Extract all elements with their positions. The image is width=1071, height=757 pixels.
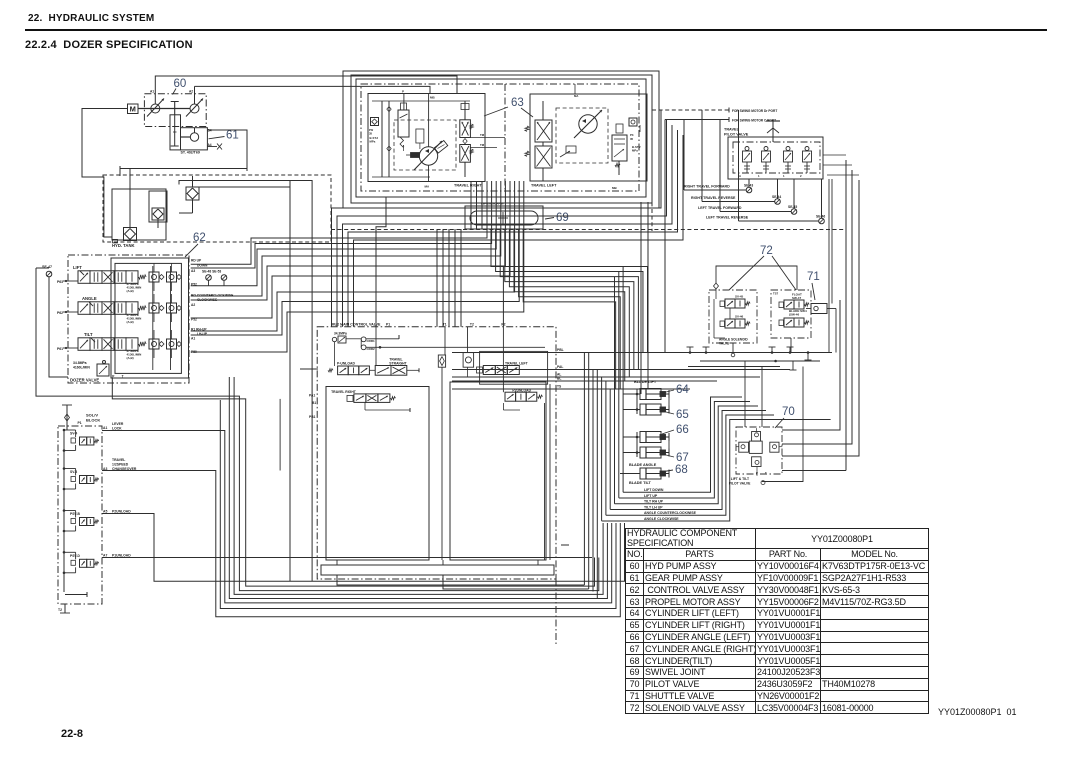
svg-text:MB: MB: [430, 96, 435, 100]
travel right orifice: [416, 129, 424, 143]
wire left travel reverse: [738, 110, 740, 221]
wire right travel forward: [683, 120, 685, 191]
svg-text:T: T: [122, 375, 124, 379]
svg-text:LIFT: LIFT: [73, 265, 82, 270]
tank bottom port: [113, 239, 118, 243]
sol/v bottom spare port: [65, 594, 87, 596]
pump coupling: [174, 102, 176, 116]
travel pilot pedal: [772, 121, 774, 142]
wire tilt rh up: [615, 406, 759, 504]
wire under propel 2: [337, 120, 667, 327]
travel pilot unit 1: [745, 147, 749, 151]
svg-text:34.8MPa: 34.8MPa: [73, 361, 87, 365]
svg-text:HYD. TANK: HYD. TANK: [112, 243, 135, 248]
cylinder tilt 68: [640, 468, 661, 479]
wire SE-47 top tie: [36, 267, 49, 269]
cylinder lift rod tie: [668, 394, 670, 410]
svg-text:ANGLE COUNTERCLOCKWISE: ANGLE COUNTERCLOCKWISE: [644, 511, 697, 515]
for swing motor D port line: [652, 109, 729, 111]
svg-text:PAL: PAL: [557, 365, 563, 369]
dozer valve inner box: [111, 258, 189, 378]
wire tank to cv supply 2: [179, 181, 312, 582]
travel right P line: [403, 94, 405, 111]
travel right tilt actuator: [434, 140, 447, 153]
subsection title: [25, 39, 193, 51]
svg-text:TM: TM: [480, 143, 485, 147]
propel motor assy outer frame 1: [343, 71, 659, 208]
shuttle valve 71: [811, 304, 827, 314]
cylinder feed tilt: [620, 473, 640, 475]
wire under propel 3: [343, 125, 673, 327]
pilot valve port right: [770, 442, 779, 452]
svg-text:P1UNLOAD: P1UNLOAD: [112, 554, 131, 558]
travel right TM stubs: [470, 137, 505, 139]
svg-text:TM: TM: [480, 133, 485, 137]
fitting down 2: [807, 353, 809, 361]
gear pump circle: [190, 133, 198, 141]
svg-text:LEVER: LEVER: [112, 422, 124, 426]
wire dozer-swivel 1: [191, 181, 487, 264]
svg-text:63: 63: [511, 97, 524, 109]
svg-text:BLADE LIFT: BLADE LIFT: [634, 380, 657, 384]
wire pump suction to tank: [155, 76, 457, 104]
travel right speed actuator: [411, 153, 420, 158]
cv port PAL line: [452, 369, 790, 371]
wire dozer drain b: [229, 377, 607, 599]
fitting risers: [744, 361, 746, 427]
svg-text:TRAVEL RIGHT: TRAVEL RIGHT: [331, 390, 357, 394]
dozer section TILT feeds: [153, 330, 155, 339]
swivel joint outer box: [465, 206, 543, 229]
dozer valve inner box 2: [115, 263, 181, 373]
svg-text:TRAVEL: TRAVEL: [724, 128, 740, 132]
svg-text:P2UNLOAD: P2UNLOAD: [112, 510, 131, 514]
svg-text:SV-3: SV-3: [70, 470, 77, 474]
pilot valve center block: [749, 441, 762, 453]
svg-text:68: 68: [675, 464, 688, 476]
svg-text:A2: A2: [189, 90, 193, 94]
wire pilot valve to right margin: [782, 470, 846, 472]
sensor SE-48: [206, 275, 212, 281]
angle solenoid valve dash-dot box: [709, 290, 757, 343]
svg-text:SV-45: SV-45: [735, 295, 744, 299]
svg-text:PB1: PB1: [309, 415, 316, 419]
svg-text:A1: A1: [191, 337, 195, 341]
travel left port square: [629, 118, 637, 126]
wire swivel-cv 2: [442, 229, 444, 327]
wire propel to blade lift: [640, 202, 642, 394]
svg-text:SE-44: SE-44: [772, 195, 781, 199]
wire swing C down: [664, 120, 666, 353]
svg-text:35: 35: [369, 132, 373, 136]
cv bottom tank bracket: [321, 565, 554, 575]
sol/v T2 drain: [64, 604, 66, 613]
svg-text:DOZER VALVE: DOZER VALVE: [70, 378, 99, 383]
travel left counterbalance valve: [535, 120, 552, 142]
svg-text:P: P: [756, 471, 758, 475]
travel pilot unit 2: [764, 147, 768, 151]
svg-text:T1: T1: [443, 323, 447, 327]
svg-text:66: 66: [676, 424, 689, 436]
wire weave 8: [523, 229, 615, 389]
wire trunk 10: [622, 267, 624, 493]
propel center divider: [504, 84, 506, 191]
wire dozer drain a: [220, 400, 616, 609]
wire dozer drain c: [234, 377, 603, 594]
svg-text:SV-46: SV-46: [735, 315, 744, 319]
svg-text:TS7: TS7: [773, 292, 779, 296]
wire cv bottom drops: [337, 575, 584, 585]
travel right motor dashed box: [394, 120, 456, 170]
wire trunk 2: [588, 353, 590, 590]
svg-text:RIGHT TRAVEL REVERSE: RIGHT TRAVEL REVERSE: [691, 196, 736, 200]
travel right motor circle: [419, 147, 437, 165]
svg-text:TRAVEL: TRAVEL: [112, 458, 125, 462]
wire A1 lever lock: [102, 431, 612, 603]
travel left motor circle: [579, 115, 597, 133]
svg-text:(A,B): (A,B): [127, 289, 134, 293]
cv left tall section box: [326, 387, 429, 561]
wire P1 supply down: [376, 197, 386, 327]
wire under propel 4: [348, 130, 678, 327]
wire dozer-swivel 2: [191, 181, 492, 268]
drawing code: [938, 707, 1017, 717]
wire pump A2 to travel: [195, 86, 431, 93]
dozer section ANGLE port line: [63, 311, 78, 313]
svg-text:VALVE: VALVE: [719, 342, 729, 346]
wire lift down: [623, 397, 742, 492]
travel pilot unit 4: [805, 147, 809, 151]
svg-text:P2: P2: [501, 323, 505, 327]
cylinder angle right 67: [640, 447, 661, 458]
svg-text:(A,B): (A,B): [127, 356, 134, 360]
svg-text:1: 1: [783, 174, 785, 178]
svg-text:72: 72: [760, 245, 773, 257]
svg-text:P1: P1: [386, 323, 390, 327]
wire gear pump outlet: [120, 130, 247, 176]
wire weave 7: [519, 229, 621, 389]
page number: [61, 728, 83, 740]
svg-text:P61: P61: [57, 347, 63, 351]
wire swivel-cv 3: [448, 229, 450, 327]
svg-text:T2: T2: [58, 608, 62, 612]
control valve assy 62 dash-dot box: [68, 255, 189, 383]
svg-text:TRAVEL LEFT: TRAVEL LEFT: [531, 184, 557, 188]
wire trunk 9: [618, 272, 620, 498]
cv check CRR1: [346, 338, 361, 340]
svg-text:B1: B1: [312, 401, 316, 405]
cylinder feed angle: [636, 432, 638, 457]
svg-text:MPa: MPa: [370, 140, 376, 144]
propel motor assy outer frame 3: [356, 79, 646, 197]
wire lift up: [619, 402, 750, 498]
wire dozer-swivel 8: [191, 181, 520, 335]
cylinder lift right 65: [640, 404, 661, 415]
cylinder feed lift: [636, 389, 638, 414]
svg-text:71: 71: [807, 271, 820, 283]
wire A7 p1unload: [102, 557, 592, 559]
wire tilt lh up: [610, 411, 766, 510]
travel right motor box: [368, 94, 485, 182]
svg-text:M: M: [130, 105, 136, 114]
svg-text:TRAVEL LEFT: TRAVEL LEFT: [505, 361, 529, 365]
wire weave 4: [505, 229, 634, 370]
pump shaft: [138, 108, 191, 110]
svg-text:ANGLE: ANGLE: [82, 296, 97, 301]
wire dozer-swivel 9: [191, 181, 524, 352]
propel motor assy dash-dot box: [361, 84, 639, 191]
wire tank suction: [129, 168, 131, 228]
lift tilt pilot valve dash-dot box: [736, 427, 782, 474]
svg-text:SW-47: SW-47: [792, 296, 801, 300]
svg-text:SE-46: SE-46: [816, 215, 825, 219]
svg-text:P63: P63: [57, 280, 63, 284]
wire trunk 1: [583, 353, 585, 586]
svg-text:A7: A7: [103, 554, 107, 558]
wire dozer tank return 2: [112, 378, 594, 586]
wire weave 3: [500, 229, 638, 370]
travel right counterbalance valve: [460, 120, 471, 138]
wire angle clockwise: [602, 420, 831, 521]
tank strainer: [124, 228, 137, 241]
cv T1 check: [438, 355, 445, 367]
svg-text:64: 64: [676, 384, 689, 396]
cv inner right verticals: [544, 403, 546, 560]
wire shuttle down: [828, 179, 830, 353]
svg-text:A2: A2: [191, 303, 195, 307]
svg-text:PBL: PBL: [557, 348, 564, 352]
svg-text:P-UNLOAD: P-UNLOAD: [337, 361, 355, 365]
svg-text:70: 70: [782, 406, 795, 418]
cv port TS line: [452, 388, 690, 390]
svg-text:65: 65: [676, 409, 689, 421]
wire swing D down: [651, 110, 653, 231]
cv T2 check: [463, 353, 474, 368]
svg-text:BLADE TILT: BLADE TILT: [629, 481, 652, 485]
header: section title: [28, 13, 154, 24]
cv right tall section box: [450, 382, 546, 560]
cv travel left sub box: [480, 351, 548, 384]
fitting T4: [789, 347, 791, 353]
wire dozer-swivel 6: [191, 181, 510, 318]
gear pump coupling box: [170, 115, 181, 150]
cv port PBL line: [452, 352, 832, 354]
pump circle left: [151, 104, 160, 113]
svg-text:SV-4: SV-4: [70, 432, 77, 436]
pilot valve port left: [739, 442, 749, 452]
svg-text:P: P: [402, 90, 404, 94]
svg-text:1/2SPEED: 1/2SPEED: [112, 463, 129, 467]
svg-text:ST. 402/T69: ST. 402/T69: [181, 151, 200, 155]
cv check CRR2: [361, 345, 366, 350]
travel pilot valve dash-dot box: [733, 142, 820, 173]
svg-text:RD UP: RD UP: [191, 259, 202, 263]
svg-text:MPa: MPa: [632, 149, 638, 153]
sensor SE-43: [746, 187, 752, 193]
for swing motor C port line: [665, 119, 729, 121]
wire M case drain: [82, 109, 128, 238]
svg-text:STRAIGHT: STRAIGHT: [389, 361, 407, 365]
svg-text:(SW-46: (SW-46: [789, 313, 799, 317]
cylinder lift left 64: [640, 389, 661, 400]
svg-text:TILT LH UP: TILT LH UP: [644, 505, 663, 509]
travel right MB line: [428, 94, 430, 148]
wires propel to swivel: [470, 181, 472, 229]
wire trunk 3: [592, 370, 594, 592]
travel pilot valve box: [728, 137, 823, 179]
float/blade solenoid dash-dot box: [771, 290, 811, 338]
wire weave 1: [491, 229, 648, 353]
cylinder angle rod tie: [668, 437, 670, 453]
svg-text:LIFT DOWN: LIFT DOWN: [644, 488, 664, 492]
wire SE-47 down: [49, 277, 68, 377]
wire swivel-cv 1: [436, 229, 438, 327]
pilot valve port top: [752, 432, 761, 442]
svg-text:BLOCK: BLOCK: [86, 418, 100, 423]
svg-text:A1: A1: [150, 90, 154, 94]
svg-text:SE-45: SE-45: [788, 205, 797, 209]
sol/v block top feed: [62, 404, 72, 406]
wire left travel forward: [719, 120, 721, 212]
wire dozer-swivel 5: [191, 181, 506, 300]
wire trunk 8: [614, 277, 616, 504]
wire right travel reverse: [701, 110, 703, 202]
hyd tank dashed box: [103, 175, 331, 242]
svg-text:TS: TS: [557, 385, 562, 389]
cylinder angle left 66: [640, 432, 661, 443]
travel left speed piston: [566, 146, 576, 153]
sensor SE-46: [819, 218, 825, 224]
svg-text:MU2 MAIN CONTROL VALVE: MU2 MAIN CONTROL VALVE: [332, 323, 382, 327]
svg-text:61: 61: [226, 130, 239, 142]
svg-text:P1: P1: [78, 421, 82, 425]
sensor SE-53: [221, 275, 227, 281]
solenoid fitting bus: [685, 352, 832, 354]
svg-text:TILT RH UP: TILT RH UP: [644, 500, 664, 504]
wire under propel 5: [354, 135, 684, 327]
svg-text:60: 60: [174, 78, 187, 90]
svg-text:PILOT VALVE: PILOT VALVE: [729, 482, 751, 486]
svg-text:BL: BL: [557, 377, 561, 381]
svg-text:RIGHT TRAVEL FORWARD: RIGHT TRAVEL FORWARD: [684, 185, 730, 189]
sensor SE-45: [791, 209, 797, 215]
wire weave 6: [514, 229, 625, 381]
motor M: [128, 104, 139, 114]
svg-text:SE-43: SE-43: [744, 184, 753, 188]
svg-text:LOCK: LOCK: [112, 427, 122, 431]
dozer section ANGLE feeds: [153, 294, 155, 303]
wire A3 travel changeover: [102, 471, 620, 617]
cv dash-dot below: [555, 579, 557, 645]
dozer section LIFT feeds: [153, 263, 155, 272]
svg-text:MA: MA: [425, 185, 430, 189]
solenoid float: [784, 300, 794, 309]
wire trunk 4: [596, 370, 598, 599]
wire A5 p2unload: [102, 514, 625, 582]
svg-text:34.3MPa: 34.3MPa: [334, 332, 347, 336]
travel right port square: [371, 118, 379, 126]
wire dozer-swivel 7: [191, 181, 515, 331]
wire trunk 5: [601, 377, 603, 521]
dozer valve internal rails: [152, 266, 154, 370]
svg-text:MB: MB: [612, 186, 617, 190]
sol/v block dash-dot box: [58, 426, 102, 604]
wire dozer drain e: [279, 399, 281, 471]
travel right motor drain: [428, 165, 430, 181]
cv P1 internal: [375, 327, 377, 366]
svg-text:TRAVEL RIGHT: TRAVEL RIGHT: [454, 184, 482, 188]
hyd pump assy 60 outline: [144, 94, 206, 127]
sol/v internal rail: [63, 430, 65, 592]
wire under propel 1: [332, 110, 662, 327]
angle solenoid internal wires: [713, 299, 715, 338]
wire weave 2: [496, 229, 643, 353]
fitting down 1: [792, 361, 794, 370]
svg-text:T2: T2: [470, 323, 474, 327]
dozer section LIFT port line: [63, 280, 78, 282]
dozer section TILT port line: [63, 347, 78, 349]
wire angle counterclockwise: [606, 415, 774, 515]
travel left motor box: [530, 94, 647, 181]
svg-text:35: 35: [630, 137, 634, 141]
return filter: [186, 187, 199, 200]
travel right rails: [381, 101, 383, 177]
sensor SE-44: [775, 199, 781, 205]
svg-text:MA: MA: [574, 94, 578, 98]
wire dozer tank return 1: [36, 268, 599, 591]
svg-text:BLADE ANGLE: BLADE ANGLE: [629, 463, 657, 467]
gear pump assy 61 box: [181, 128, 208, 150]
header rule: [25, 29, 1047, 31]
svg-text:62: 62: [193, 232, 206, 244]
svg-text:A1: A1: [103, 426, 107, 430]
travel left brake valve: [612, 135, 627, 161]
svg-text:A3: A3: [191, 269, 195, 273]
far right verticals: [845, 160, 847, 471]
travel right brake valve: [398, 110, 409, 137]
wire dozer-swivel 4: [191, 181, 501, 296]
wire pilot valve right down: [762, 367, 803, 482]
propel motor assy outer frame 2: [351, 75, 652, 203]
tank filter 2: [152, 208, 164, 220]
svg-text:PILOT VALVE: PILOT VALVE: [724, 133, 749, 137]
hydraulic component specification table: [625, 528, 929, 714]
wire trunk 6: [605, 381, 607, 515]
svg-text:TILT: TILT: [84, 332, 93, 337]
swivel joint center mark: [502, 212, 504, 224]
tank inner box: [112, 189, 166, 240]
fitting T2: [705, 347, 707, 353]
svg-text:LEFT TRAVEL FORWARD: LEFT TRAVEL FORWARD: [698, 206, 742, 210]
upper structure divider dash line: [331, 229, 845, 231]
pump circle right: [190, 104, 199, 113]
svg-text:ANGLE CLOCKWISE: ANGLE CLOCKWISE: [644, 517, 679, 521]
svg-text:P62: P62: [57, 311, 63, 315]
fitting T3: [771, 347, 773, 353]
wire weave 5: [509, 229, 629, 377]
main control valve dash-dot box: [317, 327, 556, 579]
svg-text:SE-48 SE-53: SE-48 SE-53: [202, 270, 221, 274]
svg-text:4160L/MIN: 4160L/MIN: [73, 366, 90, 370]
svg-text:LIFT & TILT: LIFT & TILT: [731, 477, 750, 481]
svg-text:A: A: [739, 174, 741, 178]
cv P2 feed: [502, 327, 504, 393]
wire solenoid boxes to bus: [732, 343, 734, 353]
travel left motor dashed box: [556, 108, 608, 163]
svg-text:1: 1: [758, 174, 760, 178]
travel pilot unit 3: [786, 147, 790, 151]
fitting T1: [689, 347, 691, 353]
